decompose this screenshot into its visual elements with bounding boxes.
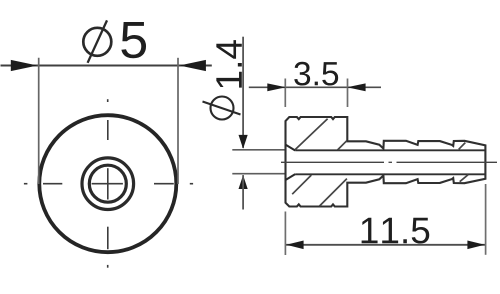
dimension D1.4 top extension line: [232, 149, 285, 151]
dimension D5 right extension line: [177, 58, 179, 184]
dimension D1.4 diameter symbol: [203, 97, 241, 120]
dimension 11.5 left arrow: [286, 241, 303, 250]
hatching lower head short: [292, 175, 311, 194]
dimension D1.4 lower arrow: [239, 175, 248, 189]
dimension D5 diameter symbol: [83, 20, 111, 62]
hatching bottom strip tick: [460, 175, 469, 182]
dimension 3.5 right arrow: [347, 83, 366, 91]
front view outer circle (body OD 5): [39, 115, 176, 252]
hatching upper head short: [338, 141, 347, 150]
front view vertical centerline: [107, 99, 109, 268]
dimension D1.4 upper arrow: [239, 135, 248, 149]
dimension 11.5 value: [362, 218, 430, 244]
bore bottom line: [295, 173, 485, 175]
dimension 11.5 line: [286, 244, 485, 246]
section view silhouette with barbs: [286, 117, 486, 207]
dimension D5 left extension line: [38, 58, 40, 184]
bore top line: [295, 149, 485, 151]
dimension 3.5 line: [249, 86, 381, 88]
dimension D1.4 lower tail: [242, 175, 244, 209]
dimension 11.5 right arrow: [467, 241, 484, 250]
front view countersink circle: [82, 158, 134, 210]
hatching upper head long: [295, 119, 328, 150]
dimension D5 left arrow: [11, 60, 38, 71]
hatching lower head long: [319, 179, 347, 207]
dimension D5 right arrow: [179, 60, 206, 71]
dimension D1.4 line: [242, 37, 244, 148]
countersink cone upper line: [286, 145, 296, 151]
hatching top strip tick: [459, 143, 466, 150]
dimension 3.5 right extension line: [347, 79, 349, 108]
dimension 11.5 left extension line: [284, 212, 286, 256]
dimension D5 value 5: [121, 22, 146, 58]
dimension 11.5 right extension line: [485, 184, 487, 255]
dimension 3.5 value: [294, 62, 338, 86]
countersink cone lower line: [286, 174, 296, 180]
section view centerline: [281, 161, 497, 163]
dimension D5 line: [1, 65, 212, 67]
dimension D1.4 value 1.4: [216, 40, 241, 88]
dimension 3.5 left arrow: [267, 83, 286, 91]
front view bore circle (1.4): [89, 165, 126, 202]
dimension D1.4 bottom extension line: [232, 173, 285, 175]
front view horizontal centerline: [24, 183, 193, 185]
dimension 3.5 left extension line: [284, 79, 286, 108]
